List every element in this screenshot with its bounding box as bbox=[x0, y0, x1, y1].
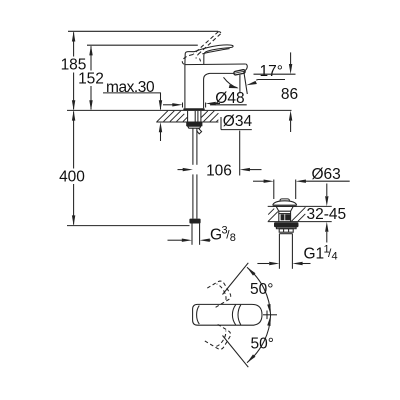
G3/8 threaded end right wall bbox=[199, 224, 201, 245]
svg-text:32-45: 32-45 bbox=[307, 206, 347, 223]
countertop deck top line (main view) bbox=[67, 109, 292, 111]
dimension 86 bbox=[289, 52, 292, 132]
label G1 1/4 bbox=[304, 244, 338, 263]
svg-text:Ø63: Ø63 bbox=[312, 166, 341, 183]
Ø48 label underline bbox=[210, 104, 247, 106]
faucet top line body and spout bbox=[185, 63, 246, 66]
deck hatching drain left bbox=[268, 209, 278, 222]
Ø63 extension tick right bbox=[295, 180, 297, 200]
drain hex section bbox=[279, 229, 293, 233]
svg-text:G1: G1 bbox=[304, 246, 325, 263]
50deg arc bbox=[247, 267, 271, 362]
svg-text:50°: 50° bbox=[251, 336, 274, 353]
dashed handle tip upper bbox=[205, 279, 232, 307]
G3/8 threaded end left wall bbox=[191, 224, 193, 245]
dashed raised lever heel arc bbox=[182, 55, 193, 65]
drain body slots bbox=[281, 214, 285, 220]
dashed raised lever upper line bbox=[193, 32, 218, 55]
drain cap rim lines bbox=[273, 204, 297, 206]
arc arrowhead above centerline bbox=[267, 304, 270, 314]
svg-text:Ø34: Ø34 bbox=[223, 113, 253, 130]
top view divider arc 2 bbox=[238, 305, 241, 325]
svg-text:G: G bbox=[210, 226, 222, 243]
svg-text:86: 86 bbox=[281, 86, 298, 103]
50deg line lower bbox=[223, 336, 249, 368]
svg-text:8: 8 bbox=[230, 232, 236, 244]
svg-text:4: 4 bbox=[332, 251, 338, 263]
deck hatching left of faucet bbox=[157, 111, 187, 122]
17deg arc arrowhead bbox=[229, 85, 239, 89]
supply pipe inside shank bbox=[194, 111, 196, 122]
top view divider arc 1 bbox=[232, 305, 235, 325]
dimension Ø48 arrows bbox=[163, 102, 220, 108]
dimension 400 line bbox=[72, 110, 75, 225]
dimension G3/8 arrows bbox=[168, 239, 211, 242]
spout underside bbox=[204, 73, 235, 79]
deck bottom line (drain view) bbox=[268, 221, 332, 223]
label G3/8 bbox=[210, 225, 236, 245]
top view centerline bbox=[263, 314, 277, 316]
drain body in deck hole bbox=[276, 207, 293, 212]
arc arrowhead below centerline bbox=[267, 316, 270, 326]
17deg arc bbox=[224, 77, 238, 88]
countertop deck bottom line (main view) bbox=[156, 121, 218, 123]
dimension 106 bbox=[178, 168, 262, 171]
dimension G1 1/4 bbox=[257, 262, 310, 265]
shank right wall bbox=[200, 111, 202, 122]
extension line top of lever (152 ref) bbox=[87, 44, 198, 46]
spout axis extension line upper bbox=[239, 75, 241, 94]
top view center cross tick bbox=[266, 311, 268, 320]
max.30 leader underline bbox=[103, 92, 161, 94]
dimension 152 line bbox=[89, 45, 92, 110]
drain band under locknut bbox=[276, 227, 296, 229]
svg-text:152: 152 bbox=[78, 70, 104, 87]
top view handle tip inner line bbox=[197, 306, 200, 324]
top view handle outline bbox=[193, 304, 262, 325]
svg-text:106: 106 bbox=[206, 162, 232, 179]
Ø63 extension tick left bbox=[273, 180, 275, 200]
hose stub right bbox=[197, 128, 202, 134]
dimension 185 line bbox=[72, 31, 75, 110]
dimension 32-45 bbox=[325, 184, 328, 243]
faucet body right edge bbox=[203, 79, 205, 108]
dimension Ø63 bbox=[253, 180, 350, 183]
17deg slanted line bbox=[244, 72, 248, 95]
washer under nut bbox=[188, 126, 201, 128]
drain step bbox=[279, 233, 292, 235]
bottom reference line (hose end, 400 ref) bbox=[67, 225, 190, 227]
drain cap bbox=[273, 201, 297, 205]
shank fixing nut bbox=[186, 122, 202, 126]
max.30 dimension arrows bbox=[159, 93, 162, 141]
shank left wall bbox=[187, 111, 189, 122]
svg-text:400: 400 bbox=[59, 168, 85, 185]
drain cap knob bbox=[280, 199, 289, 201]
handle dome and lever (side view) bbox=[185, 45, 233, 64]
arc arrowhead bottom (at 50deg line) bbox=[247, 354, 256, 362]
svg-text:max.30: max.30 bbox=[106, 79, 155, 96]
supply pipe lower segment bbox=[193, 174, 197, 218]
faucet body left edge bbox=[184, 64, 186, 108]
aerator bbox=[234, 69, 246, 75]
arc arrowhead top (at 50deg line) bbox=[247, 267, 256, 275]
deck hatching drain right bbox=[292, 207, 306, 221]
17deg label underline / 86 top tick bbox=[254, 73, 296, 75]
drain tailpipe left wall bbox=[278, 234, 280, 269]
spout tip curve bbox=[245, 64, 247, 70]
deck hatching right of faucet bbox=[201, 111, 218, 122]
extension line top of handle (185 ref) bbox=[68, 30, 218, 32]
drain tailpipe right wall bbox=[291, 234, 293, 269]
supply pipe upper segment bbox=[193, 128, 197, 165]
svg-text:17°: 17° bbox=[260, 63, 283, 80]
lever inner line bbox=[202, 49, 229, 54]
50deg line upper bbox=[223, 263, 249, 295]
drain locknut bbox=[274, 222, 299, 227]
dashed heel inner dash bbox=[200, 59, 201, 63]
hose end nut G3/8 bbox=[189, 219, 200, 224]
dashed raised lever lower line bbox=[200, 34, 221, 53]
faucet base flange bbox=[183, 108, 204, 110]
dashed neck arc bbox=[196, 53, 200, 59]
deck top line (drain view) bbox=[268, 205, 332, 207]
svg-text:50°: 50° bbox=[250, 281, 273, 298]
dashed raised lever tip arc bbox=[218, 32, 220, 34]
17deg leader arrow right bbox=[246, 80, 285, 86]
spout axis extension line lower bbox=[239, 131, 241, 176]
dashed handle tip lower bbox=[205, 323, 232, 351]
label Ø34 box bbox=[221, 117, 252, 130]
